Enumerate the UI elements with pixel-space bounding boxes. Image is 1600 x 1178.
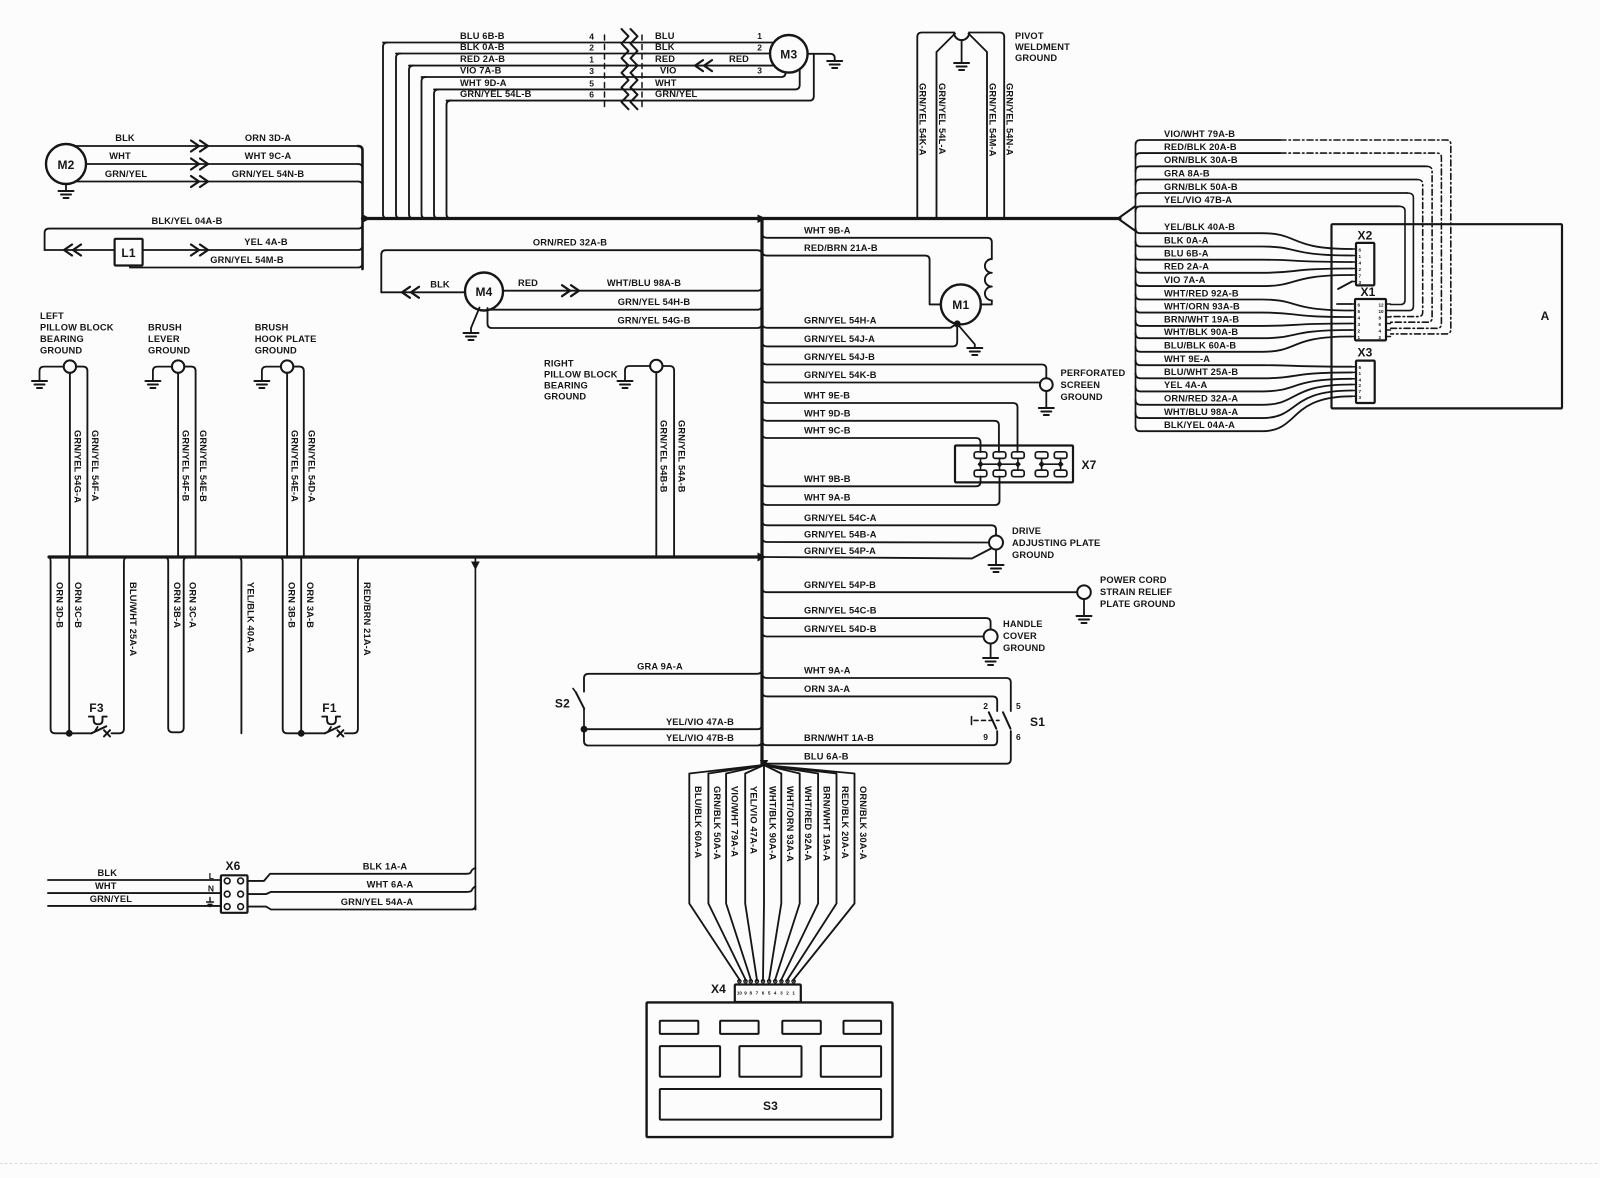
svg-text:4: 4 bbox=[1359, 377, 1362, 382]
wire GRN/YEL 54M-A bbox=[969, 34, 988, 219]
wire RED to M3 bbox=[645, 65, 774, 67]
svg-text:6: 6 bbox=[1359, 365, 1362, 370]
wire GRA 9A-A bbox=[584, 669, 762, 691]
svg-text:GRN/YEL 54H-B: GRN/YEL 54H-B bbox=[618, 297, 691, 307]
fuse F3 bbox=[89, 717, 107, 725]
arrow on RED (M4 right) bbox=[562, 285, 579, 296]
wire BLK/YEL 04A-B bbox=[45, 224, 363, 250]
terminal circle BRN/WHT 19A-A bbox=[780, 980, 783, 983]
svg-text:WHT/BLK 90A-B: WHT/BLK 90A-B bbox=[1164, 327, 1238, 337]
wire WHT 9A-A bbox=[762, 673, 1011, 711]
connector X6 contact bbox=[224, 891, 230, 897]
wire GRN/YEL 54A-A bbox=[248, 905, 476, 910]
svg-text:BLU/BLK 60A-B: BLU/BLK 60A-B bbox=[1164, 341, 1236, 351]
perforated screen ground lead bbox=[1045, 391, 1047, 408]
wire GRN/YEL 54E-A bbox=[286, 373, 288, 557]
svg-text:S1: S1 bbox=[1030, 715, 1045, 729]
right pillow block ground lead bbox=[625, 366, 650, 381]
svg-text:3: 3 bbox=[757, 66, 762, 76]
wire GRN/YEL 54H-B bbox=[490, 305, 763, 310]
svg-text:YEL/VIO 47B-B: YEL/VIO 47B-B bbox=[666, 733, 734, 743]
keypad S3 button row2-2 bbox=[739, 1046, 801, 1077]
svg-text:1: 1 bbox=[757, 31, 762, 41]
connector X6 contact bbox=[224, 878, 230, 884]
svg-text:BLU 6B-A: BLU 6B-A bbox=[1164, 249, 1209, 259]
svg-text:2: 2 bbox=[786, 991, 789, 996]
svg-text:GRN/YEL 54N-B: GRN/YEL 54N-B bbox=[232, 169, 305, 179]
wire VIO 7A-A bbox=[1136, 275, 1353, 286]
svg-text:WELDMENT: WELDMENT bbox=[1015, 42, 1070, 52]
svg-text:GRN/YEL: GRN/YEL bbox=[90, 894, 133, 904]
svg-text:PLATE GROUND: PLATE GROUND bbox=[1100, 599, 1176, 609]
svg-text:RED/BLK 20A-A: RED/BLK 20A-A bbox=[840, 786, 850, 859]
wire WHT/RED 92A-B bbox=[1136, 295, 1352, 311]
svg-text:ORN/BLK 30A-A: ORN/BLK 30A-A bbox=[858, 786, 868, 860]
wire WHT 9D-A horizontal bbox=[434, 88, 645, 90]
wire ORN/BLK 30A-A bbox=[764, 765, 855, 981]
wire RED/BLK 20A-A bbox=[764, 765, 837, 981]
svg-text:GRN/YEL 54C-B: GRN/YEL 54C-B bbox=[804, 606, 877, 616]
svg-text:YEL/VIO 47A-A: YEL/VIO 47A-A bbox=[749, 786, 759, 854]
wire GRN/YEL 54P-A bbox=[762, 549, 991, 559]
svg-text:8: 8 bbox=[1379, 316, 1382, 321]
svg-text:RED: RED bbox=[729, 54, 749, 64]
wire ORN 3B-A / ORN 3C-A loop bbox=[164, 557, 189, 732]
wire BRN/WHT 1A-B bbox=[762, 731, 997, 745]
svg-text:BLK 0A-B: BLK 0A-B bbox=[460, 42, 505, 52]
wire GRN/YEL 54B-A bbox=[762, 537, 989, 543]
wire to fuse F1 bbox=[297, 732, 325, 734]
pivot ground dome bbox=[954, 33, 969, 41]
svg-text:RED/BRN 21A-B: RED/BRN 21A-B bbox=[804, 243, 878, 253]
svg-text:3: 3 bbox=[1358, 322, 1361, 327]
left pillow block ground terminal bbox=[64, 360, 76, 372]
svg-text:N: N bbox=[208, 884, 214, 894]
connector X6 contact bbox=[238, 878, 244, 884]
wire GRN/YEL 54H-A bbox=[762, 323, 957, 328]
wire GRN/YEL 54J-A bbox=[762, 325, 957, 347]
wire ORN/BLK 30A-B (loop to X1) bbox=[1136, 166, 1427, 171]
svg-text:BLU/BLK 60A-A: BLU/BLK 60A-A bbox=[693, 786, 703, 858]
svg-text:WHT 9C-A: WHT 9C-A bbox=[245, 151, 292, 161]
arrow into M4 (left) bbox=[402, 287, 419, 298]
wire WHT 9B-A bbox=[762, 233, 992, 259]
left pillow block ground lead bbox=[40, 367, 64, 381]
svg-text:GRN/YEL 54D-B: GRN/YEL 54D-B bbox=[804, 624, 877, 634]
motor M2 bbox=[46, 144, 86, 184]
ground at M4 bbox=[464, 332, 479, 334]
wire GRN/YEL 54C-B bbox=[762, 613, 991, 629]
svg-text:HANDLE: HANDLE bbox=[1003, 619, 1043, 629]
drive adjusting ground lead bbox=[995, 550, 997, 566]
svg-text:2: 2 bbox=[1359, 383, 1362, 388]
wire ORN/RED 32A-B bbox=[381, 250, 762, 292]
connector X7 pin 3 bbox=[1012, 452, 1025, 459]
svg-text:ORN 3C-A: ORN 3C-A bbox=[188, 582, 198, 628]
svg-text:7: 7 bbox=[1359, 274, 1362, 279]
svg-text:BRUSH: BRUSH bbox=[255, 323, 289, 333]
M4 ground lead bbox=[471, 308, 480, 334]
wire ORN 3C-B bbox=[68, 557, 70, 733]
terminal circle BLU/BLK 60A-A bbox=[738, 980, 741, 983]
svg-text:VIO/WHT 79A-A: VIO/WHT 79A-A bbox=[730, 786, 740, 857]
connector X3 bbox=[1356, 361, 1375, 403]
X7 link bar pins 4-5 bbox=[1042, 463, 1061, 465]
svg-text:WHT/RED 92A-A: WHT/RED 92A-A bbox=[803, 786, 813, 861]
cable break zigzag bbox=[622, 29, 629, 109]
keypad S3 bottom bar bbox=[660, 1089, 881, 1120]
wire RED 2A-B riser bbox=[409, 66, 414, 219]
keypad S3 button row1-4 bbox=[844, 1021, 882, 1034]
svg-text:BLK/YEL 04A-A: BLK/YEL 04A-A bbox=[1164, 420, 1235, 430]
wire GRA 8A-B loop continuation bbox=[1391, 180, 1423, 317]
svg-text:GRN/YEL 54C-A: GRN/YEL 54C-A bbox=[804, 513, 877, 523]
svg-text:3: 3 bbox=[1359, 395, 1362, 400]
switch S2 bbox=[576, 692, 584, 709]
svg-text:X3: X3 bbox=[1357, 346, 1372, 360]
junction arrow at X6 riser bbox=[471, 562, 480, 571]
svg-text:3: 3 bbox=[780, 991, 783, 996]
svg-text:GRN/YEL 54B-B: GRN/YEL 54B-B bbox=[659, 420, 669, 493]
ground symbol (pivot weldment) bbox=[954, 62, 969, 64]
wire RED/BRN 21A-B bbox=[762, 251, 941, 305]
connector X7 pin 2 bbox=[993, 452, 1006, 459]
wire BLK 1A-A bbox=[248, 868, 476, 881]
svg-text:5: 5 bbox=[589, 78, 594, 88]
inductor coil at M1 bbox=[985, 259, 992, 300]
svg-text:GRN/YEL 54E-B: GRN/YEL 54E-B bbox=[198, 430, 208, 502]
svg-text:ORN/RED 32A-B: ORN/RED 32A-B bbox=[533, 238, 607, 248]
svg-text:X2: X2 bbox=[1357, 229, 1372, 243]
wire RED/BLK 20A-B loop continuation bbox=[1280, 153, 1441, 328]
svg-text:WHT 9E-A: WHT 9E-A bbox=[1164, 354, 1210, 364]
junction dot below M1 bbox=[954, 320, 961, 327]
svg-text:9: 9 bbox=[744, 991, 747, 996]
wire BLU/WHT 25A-A riser marker bbox=[123, 556, 125, 558]
svg-text:BEARING: BEARING bbox=[40, 334, 84, 344]
svg-text:WHT 9E-B: WHT 9E-B bbox=[804, 391, 850, 401]
svg-text:BEARING: BEARING bbox=[544, 381, 588, 391]
svg-text:L: L bbox=[209, 871, 214, 881]
ground symbol (drive adjusting plate) bbox=[989, 564, 1004, 566]
svg-text:WHT 9A-B: WHT 9A-B bbox=[804, 493, 851, 503]
svg-text:GRN/YEL 54H-A: GRN/YEL 54H-A bbox=[804, 315, 877, 325]
svg-text:STRAIN RELIEF: STRAIN RELIEF bbox=[1100, 587, 1172, 597]
dashed separator left bbox=[604, 35, 606, 109]
keypad S3 button row2-3 bbox=[821, 1046, 881, 1077]
svg-text:2: 2 bbox=[1358, 329, 1361, 334]
svg-text:3: 3 bbox=[589, 66, 594, 76]
wire ORN 3B-B bbox=[278, 557, 297, 733]
svg-text:1: 1 bbox=[1359, 371, 1362, 376]
svg-text:S2: S2 bbox=[555, 697, 570, 711]
svg-text:6: 6 bbox=[589, 90, 594, 100]
svg-text:4: 4 bbox=[589, 32, 594, 42]
svg-text:GRN/YEL 54F-A: GRN/YEL 54F-A bbox=[90, 430, 100, 502]
svg-text:GRN/BLK 50A-B: GRN/BLK 50A-B bbox=[1164, 182, 1238, 192]
ground at M2 bbox=[65, 184, 67, 191]
svg-text:GRN/YEL: GRN/YEL bbox=[655, 89, 698, 99]
connector X4 body bbox=[735, 985, 801, 1003]
junction dot F1 bbox=[298, 730, 305, 737]
svg-text:GRN/YEL 54F-B: GRN/YEL 54F-B bbox=[181, 430, 191, 502]
svg-text:LEFT: LEFT bbox=[40, 311, 64, 321]
ground symbol (brush lever) bbox=[145, 380, 160, 382]
ground symbol (right pillow block) bbox=[618, 380, 633, 382]
svg-text:S3: S3 bbox=[763, 1099, 778, 1113]
wire WHT/BLU 98A-A bbox=[1136, 391, 1353, 419]
svg-text:GRN/YEL 54P-B: GRN/YEL 54P-B bbox=[804, 580, 876, 590]
wire BRN/WHT 19A-A bbox=[764, 765, 818, 981]
wire RED 2A-A bbox=[1136, 268, 1353, 273]
wire BLK (M4 left) bbox=[381, 291, 465, 293]
wire GRN/YEL 54E-B bbox=[184, 367, 195, 557]
wire GRN/YEL 54L-B riser bbox=[447, 101, 452, 219]
vertical riser to top bus (M2/L1 wires) bbox=[358, 146, 363, 269]
wire VIO 7A-B riser bbox=[422, 77, 427, 219]
svg-text:12: 12 bbox=[1379, 303, 1385, 308]
svg-text:M3: M3 bbox=[780, 48, 797, 62]
wire VIO/WHT 79A-B (loop to X1) bbox=[1136, 140, 1281, 145]
svg-text:GROUND: GROUND bbox=[1061, 392, 1103, 402]
brush lever ground terminal bbox=[172, 360, 184, 372]
wire BLU 6B-B riser bbox=[383, 43, 388, 219]
wire GRN/BLK 50A-B (loop to X1) bbox=[1136, 193, 1408, 198]
svg-text:1: 1 bbox=[1359, 254, 1362, 259]
svg-text:RED/BRN 21A-A: RED/BRN 21A-A bbox=[362, 582, 372, 656]
wire ORN 3A-B bbox=[300, 557, 302, 733]
svg-text:BLK: BLK bbox=[655, 42, 675, 52]
svg-text:GRN/YEL 54D-A: GRN/YEL 54D-A bbox=[306, 430, 316, 503]
svg-text:GRN/YEL 54A-A: GRN/YEL 54A-A bbox=[341, 897, 414, 907]
svg-text:VIO/WHT 79A-B: VIO/WHT 79A-B bbox=[1164, 129, 1235, 139]
wire M3 to ground bbox=[808, 54, 835, 61]
svg-text:GRN/YEL 54E-A: GRN/YEL 54E-A bbox=[290, 430, 300, 502]
junction arrow at lower bus bbox=[758, 553, 767, 562]
junction arrow at central bus top bbox=[758, 215, 767, 224]
wire WHT/RED 92A-A bbox=[764, 765, 800, 981]
wire YEL/BLK 40A-A stub bbox=[237, 557, 242, 733]
wire WHT 9C-B bbox=[762, 433, 981, 452]
svg-text:L1: L1 bbox=[121, 246, 136, 260]
brush hook plate ground terminal bbox=[281, 360, 293, 372]
wire BLK (mains) bbox=[48, 879, 221, 881]
X7 link bar pins 1-3 bbox=[981, 463, 1018, 465]
svg-text:X7: X7 bbox=[1081, 458, 1096, 472]
terminal circle WHT/RED 92A-A bbox=[774, 980, 777, 983]
wire GRN/YEL 54F-A bbox=[76, 367, 87, 557]
wire GRN/YEL 54C-A bbox=[762, 520, 996, 535]
wire BLU 6B-B horizontal bbox=[383, 42, 645, 44]
wire RED 2A-B horizontal bbox=[409, 65, 645, 67]
handle cover ground lead bbox=[990, 644, 992, 659]
svg-text:WHT 9B-B: WHT 9B-B bbox=[804, 474, 851, 484]
svg-text:GRN/YEL 54L-B: GRN/YEL 54L-B bbox=[460, 89, 532, 99]
wire F1 to RED/BRN 21A-A bbox=[345, 557, 363, 733]
svg-text:GRN/BLK 50A-A: GRN/BLK 50A-A bbox=[712, 786, 722, 860]
svg-text:1: 1 bbox=[589, 55, 594, 65]
svg-text:A: A bbox=[1541, 309, 1550, 323]
fuse F1 bbox=[322, 717, 340, 725]
svg-text:BLK: BLK bbox=[430, 280, 450, 290]
svg-text:YEL 4A-A: YEL 4A-A bbox=[1164, 380, 1208, 390]
wire WHT/ORN 93A-A bbox=[764, 765, 781, 981]
svg-text:YEL/BLK 40A-B: YEL/BLK 40A-B bbox=[1164, 222, 1235, 232]
wire GRA 8A-B (loop to X1) bbox=[1136, 180, 1417, 185]
svg-text:VIO 7A-B: VIO 7A-B bbox=[460, 66, 502, 76]
connector X7 pin 1 bbox=[974, 452, 987, 459]
arrow on GRN/YEL wire bbox=[191, 176, 208, 187]
svg-text:2: 2 bbox=[1379, 335, 1382, 340]
svg-text:GRN/YEL 54A-B: GRN/YEL 54A-B bbox=[677, 420, 687, 493]
arrow on BLK wire bbox=[191, 141, 208, 152]
svg-text:GRN/YEL 54J-B: GRN/YEL 54J-B bbox=[804, 352, 875, 362]
svg-text:WHT/BLK 90A-A: WHT/BLK 90A-A bbox=[768, 786, 778, 860]
connector X2 bbox=[1356, 243, 1374, 286]
motor M3 bbox=[770, 35, 808, 73]
wire GRN/YEL 54L-A bbox=[937, 34, 956, 219]
terminal circle ORN/BLK 30A-A bbox=[792, 980, 795, 983]
svg-text:YEL/VIO 47B-A: YEL/VIO 47B-A bbox=[1164, 195, 1232, 205]
wire GRN/YEL 54G-B bbox=[488, 308, 763, 328]
connector X7 body bbox=[955, 446, 1073, 483]
svg-text:GROUND: GROUND bbox=[1015, 53, 1057, 63]
svg-text:M4: M4 bbox=[475, 285, 492, 299]
svg-text:RED: RED bbox=[655, 54, 675, 64]
svg-text:COVER: COVER bbox=[1003, 631, 1037, 641]
svg-text:ORN 3B-A: ORN 3B-A bbox=[172, 582, 182, 628]
wire ORN/BLK 30A-B loop continuation bbox=[1391, 166, 1432, 322]
wire WHT 9A-B bbox=[762, 477, 1000, 506]
ground symbol (perforated screen) bbox=[1039, 407, 1054, 409]
pin ground glyph bbox=[209, 898, 211, 903]
junction arrow at top bus start bbox=[362, 214, 371, 223]
brush lever ground lead bbox=[153, 367, 172, 381]
ground symbol (power cord) bbox=[1077, 615, 1092, 617]
svg-text:M2: M2 bbox=[57, 158, 74, 172]
svg-text:5: 5 bbox=[768, 991, 771, 996]
svg-text:SCREEN: SCREEN bbox=[1061, 380, 1101, 390]
keypad S3 button row1-2 bbox=[720, 1021, 759, 1034]
svg-text:PIVOT: PIVOT bbox=[1015, 31, 1044, 41]
svg-text:VIO: VIO bbox=[660, 66, 676, 76]
svg-text:BLK 1A-A: BLK 1A-A bbox=[363, 862, 408, 872]
svg-text:BLK/YEL 04A-B: BLK/YEL 04A-B bbox=[151, 216, 222, 226]
svg-text:WHT/ORN 93A-A: WHT/ORN 93A-A bbox=[785, 786, 795, 862]
svg-text:6: 6 bbox=[1358, 303, 1361, 308]
svg-text:WHT 9C-B: WHT 9C-B bbox=[804, 426, 851, 436]
wire GRN/YEL 54B-B bbox=[655, 372, 657, 557]
component A box bbox=[1332, 224, 1563, 408]
svg-text:WHT/BLU 98A-A: WHT/BLU 98A-A bbox=[1164, 407, 1238, 417]
svg-text:GRN/YEL 54M-A: GRN/YEL 54M-A bbox=[988, 83, 998, 157]
svg-text:4: 4 bbox=[774, 991, 777, 996]
svg-text:GROUND: GROUND bbox=[255, 346, 297, 356]
svg-text:YEL/BLK 40A-A: YEL/BLK 40A-A bbox=[245, 582, 255, 653]
wire GRN/BLK 50A-A bbox=[708, 765, 764, 981]
terminal circle GRN/BLK 50A-A bbox=[744, 980, 747, 983]
wire YEL 4A-A bbox=[1136, 379, 1353, 392]
wire L1 left lead bbox=[45, 249, 115, 251]
keypad S3 button row1-1 bbox=[660, 1021, 699, 1034]
svg-text:YEL 4A-B: YEL 4A-B bbox=[244, 237, 288, 247]
arrow on WHT wire bbox=[191, 159, 208, 170]
keypad S3 button row2-1 bbox=[660, 1046, 720, 1077]
svg-text:1: 1 bbox=[1358, 335, 1361, 340]
keypad S3 body bbox=[647, 1002, 893, 1137]
arrow on YEL 4A-B bbox=[191, 245, 208, 256]
wire F3 to BLU/WHT 25A-A bbox=[112, 557, 129, 733]
wire YEL/VIO 47B-A loop continuation bbox=[1391, 206, 1405, 304]
M1 ground lead bbox=[957, 324, 975, 348]
wire BLK/YEL 04A-A bbox=[1136, 396, 1353, 431]
inductor L1 bbox=[115, 239, 143, 266]
svg-text:GRN/YEL 54G-B: GRN/YEL 54G-B bbox=[617, 316, 690, 326]
right pillow block ground terminal bbox=[650, 360, 662, 372]
bus fanout to right label column bbox=[1118, 206, 1136, 231]
svg-text:BRN/WHT 1A-B: BRN/WHT 1A-B bbox=[804, 733, 874, 743]
wire BLK to M3 pin 2 bbox=[645, 53, 770, 55]
wire ORN 3A-A bbox=[762, 691, 997, 711]
wire WHT 9D-A riser bbox=[434, 89, 439, 218]
wire YEL/VIO 47B-A (loop to X1) bbox=[1136, 206, 1400, 211]
svg-text:BLK: BLK bbox=[98, 868, 118, 878]
svg-text:2: 2 bbox=[983, 701, 988, 711]
ground at M3 bbox=[827, 60, 842, 62]
svg-text:WHT 9A-A: WHT 9A-A bbox=[804, 666, 851, 676]
svg-text:RED/BLK 20A-B: RED/BLK 20A-B bbox=[1164, 142, 1237, 152]
brush hook plate ground lead bbox=[262, 367, 281, 381]
wire RED / WHT-BLU 98A-B bbox=[503, 286, 762, 291]
svg-text:BRUSH: BRUSH bbox=[148, 323, 182, 333]
svg-text:POWER CORD: POWER CORD bbox=[1100, 575, 1167, 585]
wire WHT 9D-B bbox=[762, 416, 999, 452]
handle cover ground terminal bbox=[984, 630, 998, 644]
svg-text:GRN/YEL 54K-B: GRN/YEL 54K-B bbox=[804, 370, 877, 380]
wire WHT/BLK 90A-A bbox=[763, 765, 764, 981]
svg-text:WHT: WHT bbox=[655, 78, 677, 88]
svg-text:ORN 3A-A: ORN 3A-A bbox=[804, 684, 850, 694]
wire BLU/BLK 60A-A bbox=[689, 765, 764, 981]
wire BLU 6B-A bbox=[1136, 255, 1353, 262]
svg-text:PILLOW BLOCK: PILLOW BLOCK bbox=[40, 323, 114, 333]
svg-text:WHT 9D-B: WHT 9D-B bbox=[804, 408, 851, 418]
terminal circle WHT/BLK 90A-A bbox=[761, 980, 764, 983]
arrow on RED wire bbox=[695, 60, 712, 71]
svg-text:ORN 3A-B: ORN 3A-B bbox=[305, 582, 315, 628]
svg-text:X6: X6 bbox=[225, 859, 240, 873]
svg-text:PERFORATED: PERFORATED bbox=[1061, 368, 1126, 378]
connector X6 contact bbox=[238, 904, 244, 910]
svg-text:7: 7 bbox=[1359, 389, 1362, 394]
wire GRN/YEL 54L-B horizontal bbox=[447, 100, 646, 102]
svg-text:BLU/WHT 25A-A: BLU/WHT 25A-A bbox=[128, 582, 138, 656]
junction arrow at fan apex bbox=[760, 760, 768, 769]
scan artifact line (decorative) bbox=[0, 1163, 1600, 1165]
svg-text:BLU 6B-B: BLU 6B-B bbox=[460, 31, 505, 41]
svg-text:LEVER: LEVER bbox=[148, 334, 180, 344]
svg-text:DRIVE: DRIVE bbox=[1012, 526, 1041, 536]
wire RED/BLK 20A-B (loop to X1) bbox=[1136, 153, 1281, 158]
wire YEL/BLK 40A-B bbox=[1136, 228, 1353, 249]
wire WHT 9E-B bbox=[762, 398, 1018, 452]
svg-text:4: 4 bbox=[1359, 261, 1362, 266]
svg-text:ORN/BLK 30A-B: ORN/BLK 30A-B bbox=[1164, 155, 1238, 165]
wire GRN/YEL 54J-B bbox=[762, 360, 1046, 379]
svg-text:BLU: BLU bbox=[655, 31, 675, 41]
svg-text:WHT 6A-A: WHT 6A-A bbox=[367, 880, 414, 890]
connector X1 pin1 stub bbox=[1337, 303, 1351, 305]
